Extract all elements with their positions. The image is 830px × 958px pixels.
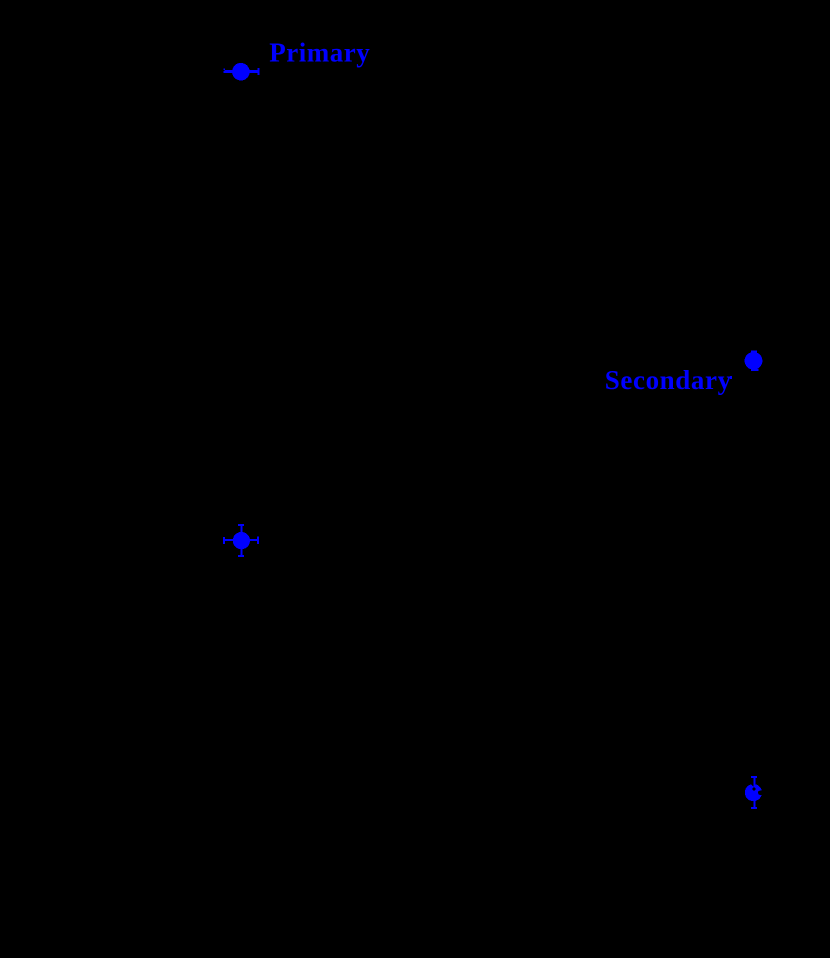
black overlay right bite <box>758 790 764 795</box>
node Secondary terminal <box>745 350 763 371</box>
node Primary terminal <box>224 63 260 81</box>
node dot <box>232 63 250 81</box>
top stub <box>754 778 756 785</box>
right stub <box>250 539 258 541</box>
node junction (4-way) <box>223 524 259 557</box>
tick left end (partially covered) <box>224 68 226 70</box>
node dot <box>745 784 762 801</box>
bottom stub <box>241 549 243 555</box>
bottom tick <box>751 807 757 809</box>
right tick <box>257 537 259 544</box>
node dot <box>233 532 250 549</box>
wire (hidden black primary side) <box>240 80 242 532</box>
left stub <box>225 539 234 541</box>
top tick <box>238 524 244 526</box>
wire stub through Primary node <box>225 70 258 73</box>
top tick <box>751 776 757 778</box>
node lower-right terminal <box>745 776 764 809</box>
svg-text:Secondary: Secondary <box>605 365 732 395</box>
node dot <box>745 352 763 370</box>
tick right end <box>258 68 260 75</box>
black overlay top wedge <box>751 784 754 787</box>
top stub <box>241 526 243 533</box>
bottom stub <box>754 801 756 808</box>
black overlay small circle <box>753 787 756 790</box>
tick above <box>751 350 757 352</box>
serif of y <box>730 376 732 379</box>
left tick <box>223 537 225 544</box>
tick below <box>751 369 758 371</box>
bottom tick <box>238 555 244 557</box>
svg-text:Primary: Primary <box>269 38 370 68</box>
